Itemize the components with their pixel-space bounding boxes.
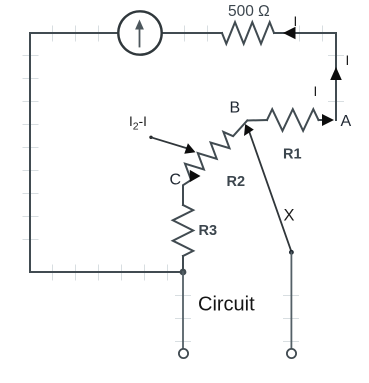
wire: top horizontal (500ohm to right corner) (274, 32, 336, 34)
wire: bottom horizontal (30, 271, 183, 273)
resistor R2 (183, 120, 247, 185)
svg-text:R2: R2 (227, 174, 246, 190)
current arrow into node A (pointing right) (322, 114, 334, 126)
grid ticks on left wire (23, 56, 38, 240)
current arrow I on top wire (pointing left) (283, 27, 296, 39)
left terminal (179, 349, 188, 358)
svg-text:I2-I: I2-I (129, 114, 147, 133)
svg-text:500 Ω: 500 Ω (228, 3, 270, 20)
arrow at node C (pointing right) (190, 170, 201, 182)
wire: node C down to R3 (182, 186, 184, 206)
arrowhead of I2-I annotation (184, 143, 195, 154)
svg-text:Circuit: Circuit (198, 294, 255, 316)
resistor R3 (173, 205, 193, 256)
svg-text:X: X (284, 207, 295, 225)
annotation line I2-I with start dot (149, 136, 152, 139)
wire: node B to R1 (248, 119, 268, 122)
grid ticks on right vertical wire (329, 56, 344, 102)
grid ticks on lower stubs (176, 296, 299, 342)
junction dot (180, 269, 187, 276)
arrowhead at node B (slider contact) (244, 124, 254, 136)
svg-text:I: I (294, 14, 298, 29)
wire: junction down to left terminal (182, 272, 184, 349)
svg-text:I: I (346, 53, 350, 68)
wire: R3 to bottom junction (182, 256, 184, 272)
svg-text:R3: R3 (199, 223, 218, 239)
resistor 500 ohm (222, 22, 274, 44)
svg-text:I: I (314, 84, 318, 99)
grid ticks on bottom wire (53, 265, 168, 280)
ammeter arrow (135, 20, 144, 47)
svg-text:B: B (230, 100, 241, 117)
svg-text:C: C (170, 172, 182, 189)
wire: top horizontal (ammeter to 500ohm) (162, 32, 222, 34)
wire: pivot down to right terminal (290, 252, 292, 348)
wire: R1 to node A (319, 119, 332, 121)
node X pivot dot (289, 250, 294, 255)
wire: top horizontal (left of ammeter) (30, 32, 118, 34)
right terminal (287, 349, 296, 358)
grid ticks on top wire (53, 26, 323, 41)
svg-text:R1: R1 (283, 147, 302, 163)
wire: left vertical (29, 33, 31, 272)
current arrow I on right wire (pointing up) (330, 67, 342, 80)
ammeter / current source circle (118, 11, 161, 54)
wire: slider arm X (from pivot up to node B) (249, 131, 292, 252)
wire: right vertical (corner to node A) (335, 33, 337, 120)
resistor R1 (267, 109, 319, 131)
svg-text:A: A (341, 113, 352, 130)
